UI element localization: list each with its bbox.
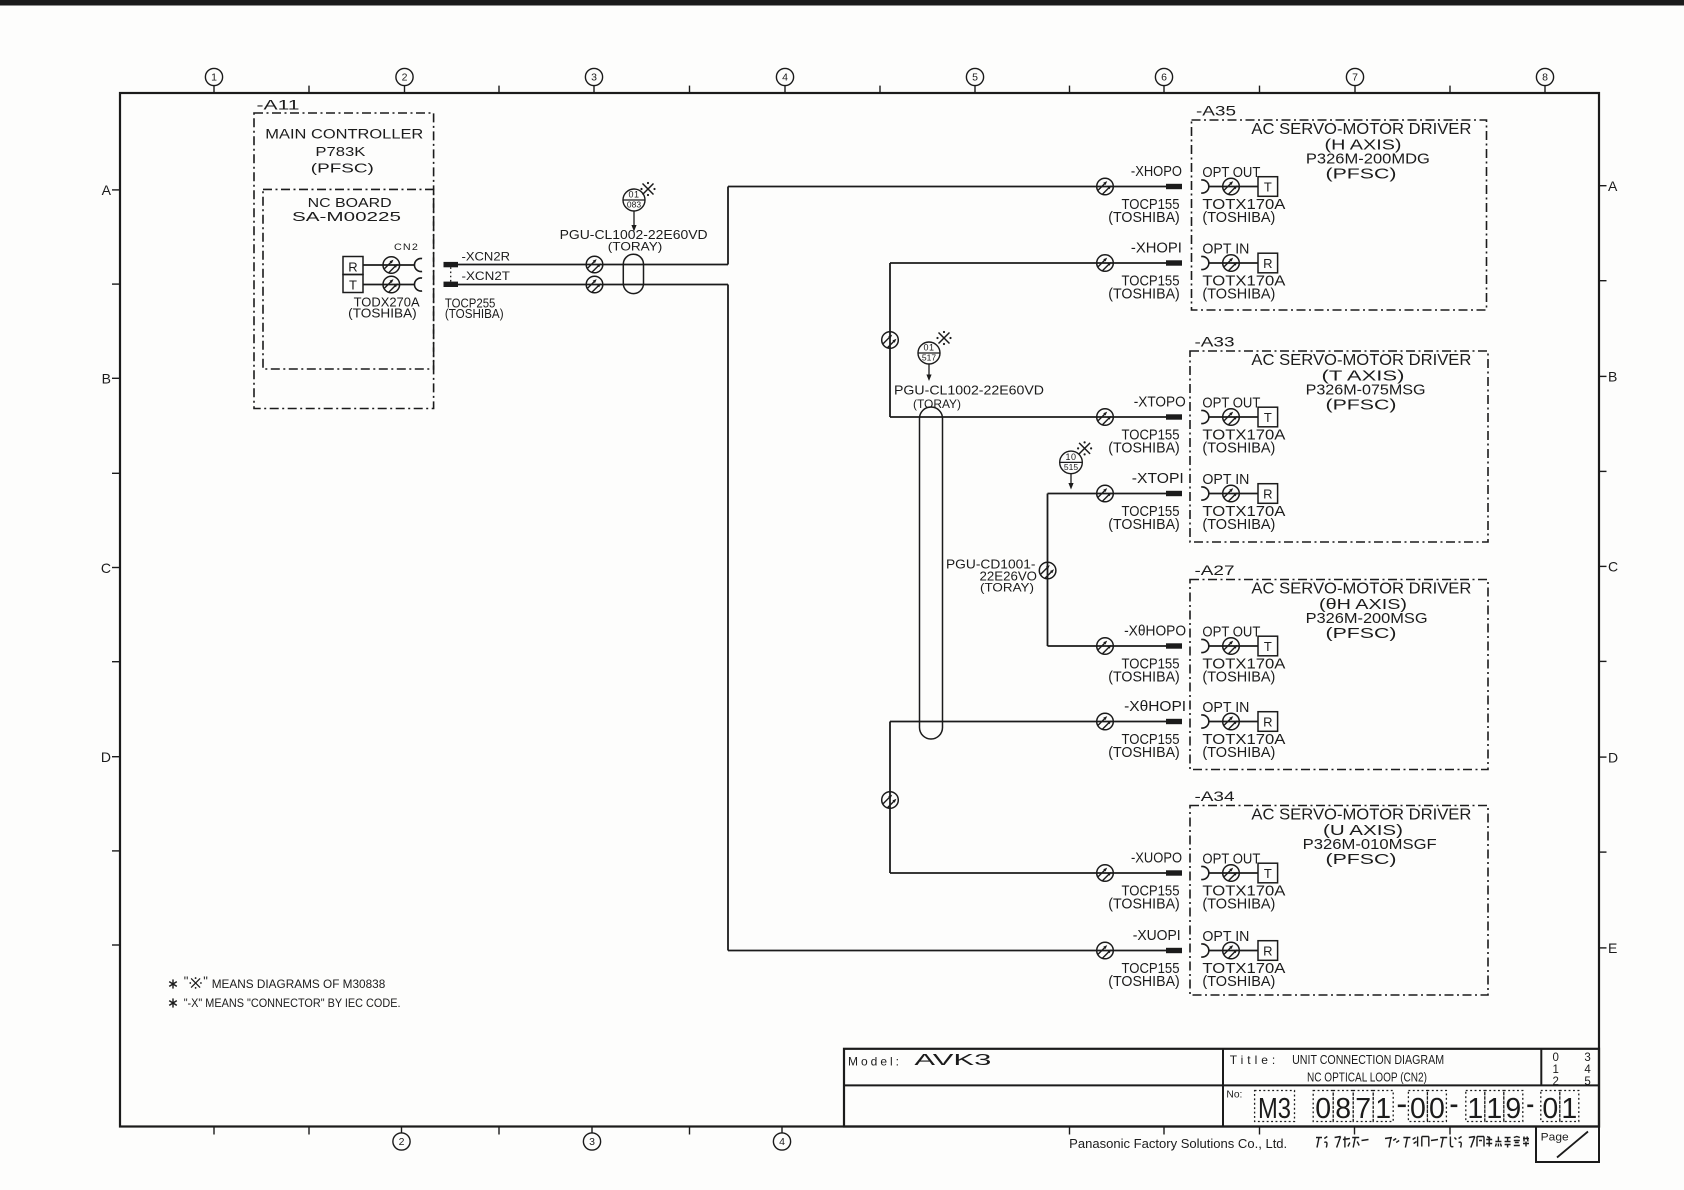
svg-text:517: 517	[922, 353, 936, 363]
wire -XHOPO riser	[727, 187, 729, 265]
plug pair link	[450, 267, 452, 281]
pin box T -A33 (TOTX170A)	[1258, 407, 1278, 427]
wire -XCN2T	[458, 284, 728, 286]
svg-text:T: T	[1264, 639, 1272, 654]
grid column label 1 top	[205, 68, 222, 93]
pin box T -A35 (TOTX170A)	[1258, 177, 1278, 197]
socket arc OPT IN -A27	[1201, 715, 1209, 728]
optical connector on -XTOPO	[1097, 409, 1114, 426]
wire -XUOPI horizontal	[728, 950, 1166, 952]
svg-text:01: 01	[628, 190, 639, 200]
grid row label B left	[102, 371, 121, 387]
wire -XHOPO horizontal	[728, 186, 1166, 188]
svg-text:NC OPTICAL LOOP (CN2): NC OPTICAL LOOP (CN2)	[1307, 1071, 1427, 1085]
svg-text:A: A	[102, 182, 112, 198]
optical connector OPT OUT -A27	[1223, 638, 1240, 655]
optical connector on -XTOPI	[1097, 485, 1114, 502]
svg-text:1: 1	[1467, 1093, 1483, 1125]
svg-text:(TOSHIBA): (TOSHIBA)	[1202, 669, 1275, 686]
svg-text:(TOSHIBA): (TOSHIBA)	[1202, 973, 1275, 990]
optical connector on riser x1047 (PGU-CD1001)	[1039, 562, 1056, 579]
svg-text:B: B	[1608, 369, 1617, 385]
pin box R (TODX270A)	[343, 257, 363, 275]
svg-text:(PFSC): (PFSC)	[1326, 852, 1397, 868]
wire -XHOPI to -XTOPO riser	[889, 263, 891, 417]
svg-text:D: D	[101, 749, 111, 765]
refmark at 01/083	[640, 182, 655, 196]
arrow 10/515 to riser	[1068, 474, 1073, 490]
note 2: -X connector meaning	[169, 996, 400, 1010]
doc number dash 3	[1527, 1105, 1533, 1108]
svg-text:0: 0	[1315, 1093, 1331, 1125]
pin box R -A27 (TOTX170A)	[1258, 712, 1278, 732]
plug -XUOPO (TOCP155)	[1166, 870, 1182, 875]
svg-text:10: 10	[1065, 452, 1076, 462]
svg-text:Panasonic Factory Solutions Co: Panasonic Factory Solutions Co., Ltd.	[1069, 1136, 1287, 1151]
svg-text:-XTOPO: -XTOPO	[1134, 395, 1186, 411]
title block horizontal divider	[844, 1084, 1599, 1086]
svg-text:1: 1	[1375, 1093, 1391, 1125]
block -A11 MAIN CONTROLLER outline	[254, 113, 434, 409]
svg-text:(PFSC): (PFSC)	[1326, 626, 1397, 642]
svg-text:8: 8	[1335, 1093, 1351, 1125]
svg-text:(TORAY): (TORAY)	[608, 239, 663, 253]
optical connector OPT IN -A35	[1223, 255, 1240, 272]
svg-text:(TOSHIBA): (TOSHIBA)	[1202, 209, 1275, 226]
svg-text:SA-M00225: SA-M00225	[292, 209, 401, 224]
svg-text:7: 7	[1355, 1093, 1371, 1125]
svg-text:01: 01	[923, 343, 934, 353]
wire -XCN2R	[458, 264, 728, 266]
wire socket to T box -A34	[1209, 872, 1258, 874]
optical connector on -XHOPI	[1097, 255, 1114, 272]
svg-text:OPT IN: OPT IN	[1202, 929, 1249, 945]
svg-text:(TOSHIBA): (TOSHIBA)	[1202, 744, 1275, 761]
grid column label 4 top	[776, 68, 793, 93]
optical connector OPT OUT -A34	[1223, 865, 1240, 882]
svg-text:R: R	[1263, 715, 1272, 730]
socket arc OPT OUT -A35	[1201, 180, 1209, 193]
block NC BOARD outline	[263, 189, 434, 369]
pin box T -A34 (TOTX170A)	[1258, 863, 1278, 883]
svg-text:T: T	[349, 278, 357, 293]
svg-text:MAIN CONTROLLER: MAIN CONTROLLER	[265, 127, 423, 143]
wire -XTOPI to -XthetaHOPO riser	[1047, 494, 1049, 647]
svg-text:MEANS DIAGRAMS OF M30838: MEANS DIAGRAMS OF M30838	[212, 977, 386, 991]
plug -X&#952;HOPO (TOCP155)	[1166, 643, 1182, 648]
grid row label D left	[101, 749, 121, 765]
svg-text:UNIT CONNECTION DIAGRAM: UNIT CONNECTION DIAGRAM	[1292, 1053, 1444, 1067]
svg-text:(TOSHIBA): (TOSHIBA)	[1202, 440, 1275, 457]
plug -X&#952;HOPI (TOCP155)	[1166, 719, 1182, 724]
svg-text:0: 0	[1542, 1093, 1558, 1125]
svg-text:-XHOPI: -XHOPI	[1131, 241, 1182, 257]
svg-text:CN2: CN2	[394, 242, 419, 252]
svg-text:T: T	[1264, 410, 1272, 425]
title block divider title/sheetnums	[1540, 1049, 1542, 1086]
svg-text:P326M-200MDG: P326M-200MDG	[1306, 151, 1430, 168]
svg-text:Title:: Title:	[1230, 1053, 1280, 1067]
svg-text:-A11: -A11	[257, 97, 300, 113]
wire -XthetaHOPI horizontal	[890, 721, 1166, 723]
optical connector on -XthetaHOPO	[1097, 638, 1114, 655]
wire socket to T box -A35	[1209, 186, 1258, 188]
svg-text:E: E	[1608, 940, 1617, 956]
svg-text:No:: No:	[1226, 1090, 1242, 1101]
svg-text:3: 3	[1584, 1052, 1590, 1064]
cable PGU-CL1002-22E60VD (2) capsule	[920, 407, 943, 739]
svg-text:1: 1	[1561, 1093, 1577, 1125]
svg-text:OPT IN: OPT IN	[1202, 241, 1249, 257]
grid column label 8 top	[1536, 68, 1553, 93]
svg-text:"-X" MEANS "CONNECTOR" BY: "-X" MEANS "CONNECTOR" BY IEC CODE.	[184, 996, 401, 1010]
diagram ref 10/515	[1060, 451, 1083, 474]
plug -XCN2T (TOCP255)	[444, 282, 459, 287]
svg-text:4: 4	[1584, 1064, 1591, 1076]
grid column label 6 top	[1155, 68, 1172, 93]
wire -XUOPO horizontal	[890, 872, 1166, 874]
svg-text:(TOSHIBA): (TOSHIBA)	[1202, 286, 1275, 303]
pin box R -A35 (TOTX170A)	[1258, 253, 1278, 273]
grid ticks right	[1599, 281, 1607, 852]
svg-text:4: 4	[782, 72, 788, 84]
wire -XCN2T drop to -XUOPI	[727, 285, 729, 951]
svg-text:5: 5	[972, 72, 978, 84]
wire T pin to CN2 socket	[363, 284, 415, 286]
svg-text:P326M-075MSG: P326M-075MSG	[1306, 382, 1426, 399]
svg-text:C: C	[101, 560, 111, 576]
grid column label 3 top	[585, 68, 602, 93]
diagram ref 01/517	[918, 342, 940, 364]
svg-text:-A27: -A27	[1195, 562, 1235, 578]
optical connector on riser x890 upper	[882, 332, 899, 349]
svg-text:AC SERVO-MOTOR DRIVER: AC SERVO-MOTOR DRIVER	[1251, 806, 1471, 823]
svg-text:AC SERVO-MOTOR DRIVER: AC SERVO-MOTOR DRIVER	[1251, 580, 1471, 597]
svg-text:7: 7	[1352, 72, 1358, 84]
grid ticks left	[112, 284, 121, 945]
arrow 01/083 to cable label	[631, 212, 636, 232]
svg-text:P783K: P783K	[315, 144, 365, 159]
svg-text:4: 4	[779, 1136, 785, 1148]
svg-text:1: 1	[211, 72, 217, 84]
svg-text:T: T	[1264, 180, 1272, 195]
svg-text:2: 2	[1553, 1076, 1559, 1088]
plug -XHOPO (TOCP155)	[1166, 184, 1182, 189]
sheet numbers grid	[1553, 1052, 1592, 1088]
doc number group 0871	[1313, 1091, 1393, 1126]
grid column label 2 bottom	[393, 1127, 410, 1151]
svg-text:5: 5	[1584, 1076, 1590, 1088]
optical connector OPT IN -A34	[1223, 942, 1240, 959]
wire socket to R box -A35	[1209, 262, 1258, 264]
svg-text:-A35: -A35	[1196, 103, 1236, 119]
grid column label 7 top	[1346, 68, 1363, 93]
wire -XTOPO horizontal	[890, 416, 1166, 418]
top margin black bar	[0, 0, 1684, 6]
socket arc OPT IN -A34	[1201, 944, 1209, 957]
svg-text:(TOSHIBA): (TOSHIBA)	[1108, 973, 1180, 990]
svg-text:(PFSC): (PFSC)	[1326, 398, 1397, 414]
optical connector on -XUOPO	[1097, 865, 1114, 882]
svg-text:R: R	[348, 260, 357, 275]
svg-text:B: B	[102, 371, 111, 387]
svg-text:(TOSHIBA): (TOSHIBA)	[445, 306, 504, 321]
svg-text:Page: Page	[1541, 1131, 1569, 1143]
optical connector on -XCN2T	[586, 276, 603, 293]
plug -XTOPO (TOCP155)	[1166, 414, 1182, 419]
svg-text:1: 1	[1553, 1064, 1559, 1076]
refmark at 10/515	[1077, 441, 1092, 455]
svg-text:-XUOPO: -XUOPO	[1131, 851, 1182, 867]
socket arc OPT OUT -A33	[1201, 411, 1209, 424]
wire -XthetaHOPO horizontal	[1048, 645, 1167, 647]
socket arc OPT IN -A35	[1201, 257, 1209, 270]
svg-text:-A33: -A33	[1195, 334, 1235, 350]
refmark at 01/517	[936, 331, 951, 345]
optical connector OPT OUT -A35	[1223, 178, 1240, 195]
svg-text:2: 2	[399, 1136, 405, 1148]
wire -XTOPI horizontal	[1048, 493, 1167, 495]
socket arc OPT IN -A33	[1201, 487, 1209, 500]
optical connector on -XHOPO	[1097, 178, 1114, 195]
doc number dash 1	[1398, 1105, 1406, 1108]
socket arc R (CN2)	[414, 259, 422, 272]
plug -XHOPI (TOCP155)	[1166, 260, 1182, 265]
socket arc OPT OUT -A34	[1201, 867, 1209, 880]
svg-text:(TOSHIBA): (TOSHIBA)	[1108, 896, 1180, 913]
svg-text:P326M-200MSG: P326M-200MSG	[1306, 610, 1428, 627]
pin box R -A34 (TOTX170A)	[1258, 941, 1278, 961]
svg-text:(TORAY): (TORAY)	[980, 581, 1034, 595]
svg-text:(TOSHIBA): (TOSHIBA)	[1108, 744, 1180, 761]
svg-text:(TOSHIBA): (TOSHIBA)	[1202, 896, 1275, 913]
wire socket to T box -A27	[1209, 645, 1258, 647]
cable PGU-CL1002-22E60VD (1) capsule	[623, 254, 643, 293]
grid row label C left	[101, 560, 121, 576]
svg-text:-XUOPI: -XUOPI	[1133, 928, 1181, 944]
doc number group 119	[1466, 1091, 1523, 1126]
doc number box M3	[1255, 1091, 1295, 1126]
optical connector on riser x890 lower	[882, 792, 899, 809]
svg-text:0: 0	[1429, 1093, 1445, 1125]
drawing frame border	[120, 93, 1599, 1127]
optical connector on -XCN2R	[586, 256, 603, 273]
grid row label D right	[1599, 749, 1619, 765]
svg-text:(TOSHIBA): (TOSHIBA)	[1108, 440, 1180, 457]
svg-text:0: 0	[1553, 1052, 1559, 1064]
svg-text:NC BOARD: NC BOARD	[308, 195, 392, 210]
svg-text:OPT IN: OPT IN	[1202, 700, 1249, 716]
grid column label 2 top	[396, 68, 413, 93]
field Title	[1230, 1053, 1444, 1085]
grid row label C right	[1599, 559, 1619, 575]
svg-text:R: R	[1263, 944, 1272, 959]
svg-text:Model:: Model:	[848, 1055, 902, 1069]
wire socket to T box -A33	[1209, 416, 1258, 418]
plug -XUOPI (TOCP155)	[1166, 948, 1182, 953]
svg-text:(PFSC): (PFSC)	[1326, 167, 1397, 183]
grid column label 4 bottom	[773, 1127, 790, 1151]
doc number group 01	[1541, 1091, 1579, 1126]
grid row label E right	[1599, 940, 1618, 956]
svg-text:8: 8	[1542, 72, 1548, 84]
grid row label A left	[102, 182, 121, 198]
title block outline	[844, 1049, 1599, 1127]
svg-text:0: 0	[1410, 1093, 1426, 1125]
grid row label B right	[1599, 369, 1618, 385]
socket arc OPT OUT -A27	[1201, 640, 1209, 653]
pin box T (TODX270A)	[343, 275, 363, 293]
svg-text:AVK3: AVK3	[914, 1052, 991, 1069]
svg-text:1: 1	[1486, 1093, 1502, 1125]
svg-text:6: 6	[1161, 72, 1167, 84]
optical connector on -XUOPI	[1097, 942, 1114, 959]
svg-text:-XHOPO: -XHOPO	[1131, 164, 1182, 180]
pin box T -A27 (TOTX170A)	[1258, 636, 1278, 656]
note 1: refmark meaning	[169, 974, 385, 992]
svg-text:(TOSHIBA): (TOSHIBA)	[1108, 286, 1180, 303]
optical connector OPT IN -A33	[1223, 485, 1240, 502]
svg-text:T: T	[1264, 866, 1272, 881]
svg-text:R: R	[1263, 487, 1272, 502]
grid column label 3 bottom	[583, 1127, 600, 1151]
svg-text:2: 2	[402, 72, 408, 84]
optical connector on -XthetaHOPI	[1097, 713, 1114, 730]
grid column label 5 top	[966, 68, 983, 93]
svg-text:-A34: -A34	[1195, 788, 1235, 804]
doc number dash 2	[1451, 1105, 1458, 1108]
wire socket to R box -A27	[1209, 721, 1258, 723]
svg-text:-XθHOPO: -XθHOPO	[1124, 624, 1186, 640]
wire socket to R box -A34	[1209, 950, 1258, 952]
svg-text:(TOSHIBA): (TOSHIBA)	[1108, 209, 1180, 226]
svg-text:3: 3	[591, 72, 597, 84]
diagram ref 01/083	[623, 189, 645, 211]
svg-text:083: 083	[627, 200, 641, 210]
svg-text:9: 9	[1505, 1093, 1521, 1125]
svg-text:AC SERVO-MOTOR DRIVER: AC SERVO-MOTOR DRIVER	[1251, 121, 1471, 138]
svg-text:(TOSHIBA): (TOSHIBA)	[1108, 516, 1180, 533]
grid ticks bottom	[214, 1127, 1450, 1135]
svg-text:(TORAY): (TORAY)	[913, 397, 961, 411]
svg-text:PGU-CL1002-22E60VD: PGU-CL1002-22E60VD	[894, 383, 1044, 398]
wire socket to R box -A33	[1209, 493, 1258, 495]
wire -XthetaHOPI to -XUOPO riser	[889, 722, 891, 874]
driver block -A34 outline	[1190, 806, 1488, 996]
svg-text:AC SERVO-MOTOR DRIVER: AC SERVO-MOTOR DRIVER	[1251, 352, 1471, 369]
svg-text:-XθHOPI: -XθHOPI	[1124, 699, 1186, 715]
optical connector OPT IN -A27	[1223, 713, 1240, 730]
page box	[1536, 1127, 1599, 1163]
optical connector on R wire	[383, 257, 400, 274]
plug -XTOPI (TOCP155)	[1166, 491, 1182, 496]
svg-text:OPT IN: OPT IN	[1202, 472, 1249, 488]
svg-text:A: A	[1608, 178, 1618, 194]
driver block -A27 outline	[1190, 580, 1488, 770]
doc number group 00	[1408, 1091, 1446, 1126]
svg-text:": "	[184, 974, 189, 989]
svg-text:3: 3	[589, 1136, 595, 1148]
svg-text:-XCN2T: -XCN2T	[462, 269, 511, 283]
wire R pin to CN2 socket	[363, 264, 415, 266]
driver block -A33 outline	[1190, 351, 1488, 542]
pin box R -A33 (TOTX170A)	[1258, 484, 1278, 504]
refmark in note 1	[189, 977, 201, 989]
grid row label A right	[1599, 178, 1619, 194]
socket arc T (CN2)	[414, 278, 422, 291]
field Model	[848, 1052, 991, 1069]
svg-text:-XTOPI: -XTOPI	[1132, 471, 1184, 487]
wire -XHOPI horizontal	[890, 262, 1166, 264]
optical connector on T wire	[383, 276, 400, 293]
svg-text:-XCN2R: -XCN2R	[462, 250, 511, 264]
grid ticks top	[309, 86, 1450, 93]
driver block -A35 outline	[1192, 120, 1487, 310]
company name japanese	[1316, 1137, 1529, 1148]
svg-text:": "	[203, 974, 208, 989]
svg-text:515: 515	[1064, 462, 1078, 472]
svg-text:C: C	[1608, 559, 1618, 575]
svg-text:(TOSHIBA): (TOSHIBA)	[1108, 669, 1180, 686]
svg-text:(TOSHIBA): (TOSHIBA)	[348, 305, 417, 320]
svg-text:P326M-010MSGF: P326M-010MSGF	[1303, 836, 1437, 853]
svg-text:(TOSHIBA): (TOSHIBA)	[1202, 516, 1275, 533]
svg-text:M3: M3	[1258, 1093, 1291, 1125]
arrow 01/517 to cable label	[926, 365, 931, 382]
svg-text:(PFSC): (PFSC)	[311, 160, 374, 175]
title block divider model/title	[1222, 1049, 1224, 1127]
svg-text:R: R	[1263, 256, 1272, 271]
plug -XCN2R (TOCP255)	[444, 262, 459, 267]
svg-text:D: D	[1608, 749, 1618, 765]
optical connector OPT OUT -A33	[1223, 409, 1240, 426]
